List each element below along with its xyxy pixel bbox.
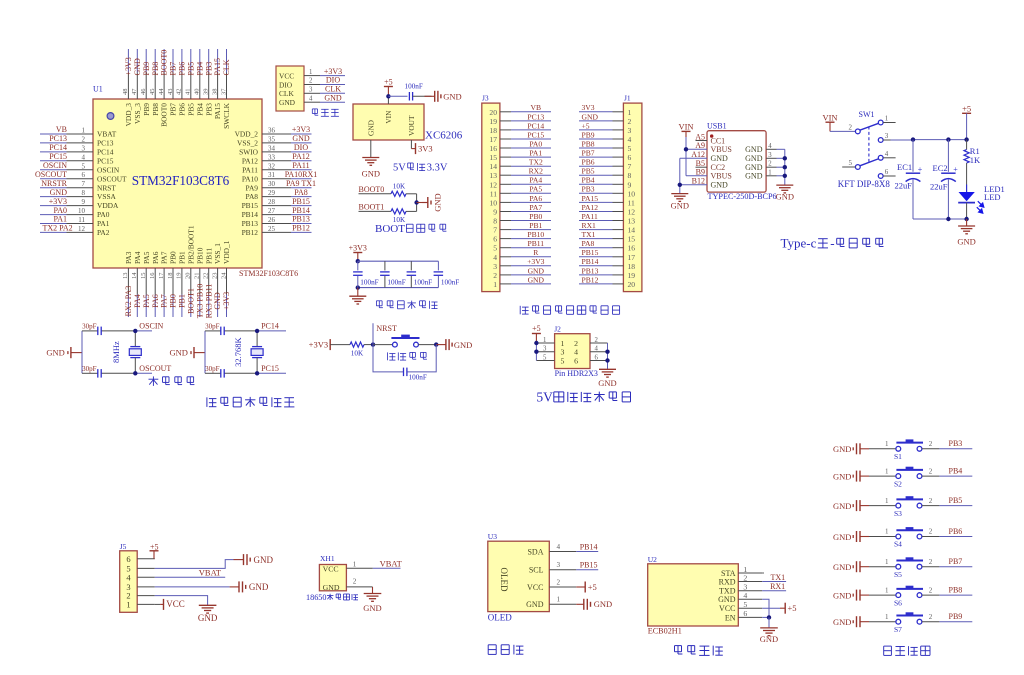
svg-text:SW1: SW1 [859,110,875,119]
svg-text:6: 6 [126,554,130,564]
J5 pin 3 [126,582,154,592]
svg-text:CLK: CLK [279,89,294,98]
net label PB8 [939,586,972,596]
U1 pin 24 VDD_1 net +3V3 [220,240,231,317]
net label PB14 at U3 SDA [576,542,598,551]
svg-text:VDDA: VDDA [97,201,119,210]
svg-text:GND: GND [760,634,778,644]
svg-text:4: 4 [557,543,561,551]
svg-text:4: 4 [309,95,313,102]
U1 pin 32 PA11 net PA11 [242,161,311,174]
svg-text:+5: +5 [788,603,797,613]
svg-text:20: 20 [489,108,497,117]
svg-text:OLED: OLED [488,613,512,623]
svg-text:16: 16 [149,272,156,279]
svg-text:2: 2 [929,558,933,566]
svg-text:PA15: PA15 [582,194,599,203]
gnd bar port button S7 [833,616,869,627]
download header pin 4 GND net GND [279,93,345,107]
svg-text:S3: S3 [894,509,902,518]
svg-text:19: 19 [628,271,636,280]
J5 pin 4 [126,572,154,582]
svg-text:10: 10 [489,198,497,207]
J3 pin 15 net PA1 [489,149,551,163]
svg-text:38: 38 [211,89,218,96]
gnd bar port button S4 [833,531,869,542]
svg-text:5: 5 [743,600,747,609]
net label PB9 [939,612,972,622]
svg-text:PA4: PA4 [133,251,142,264]
svg-text:PB6: PB6 [582,158,595,167]
svg-text:2: 2 [82,135,86,143]
svg-text:XH1: XH1 [320,554,335,563]
svg-text:PA3: PA3 [124,251,133,264]
svg-text:19: 19 [176,273,183,280]
svg-text:2: 2 [309,78,313,85]
power port +5 at U3 VCC [576,582,596,593]
svg-text:43: 43 [167,89,174,96]
svg-text:6: 6 [595,354,599,361]
svg-text:PB13: PB13 [292,215,310,224]
svg-text:100nF: 100nF [441,279,459,287]
capacitor 100nF reset loop [373,345,436,382]
wire filter bottom rail [356,285,439,289]
svg-text:BOOT: BOOT [375,223,405,235]
svg-text:3: 3 [561,348,565,357]
J3 pin 13 net RX2 [489,167,551,181]
svg-text:PC15: PC15 [527,130,544,139]
svg-text:+5: +5 [588,582,597,592]
svg-text:PB5: PB5 [186,103,195,116]
svg-text:16: 16 [489,144,497,153]
svg-text:17: 17 [158,272,165,279]
download header pin 3 CLK net CLK [279,85,345,99]
ground earth U2 [760,628,778,644]
U1 pin 4 PC15 net PC15 [40,152,114,165]
svg-text:PA1: PA1 [54,215,68,224]
svg-text:BOOT0: BOOT0 [359,185,385,194]
svg-text:25: 25 [268,225,276,233]
svg-text:GND: GND [46,348,64,358]
svg-text:CLK: CLK [325,85,341,94]
svg-text:EN: EN [725,613,736,622]
U1 pin 5 OSCIN net OSCIN [40,161,120,174]
svg-text:PB8: PB8 [151,62,160,76]
svg-text:PA7: PA7 [160,251,169,264]
U2 pin 1 STA [721,565,762,578]
J3 pin 17 net PC15 [489,130,551,144]
svg-text:17: 17 [628,253,636,262]
gnd bar port at U3 GND [576,599,612,610]
U3 comment OLED [488,613,512,623]
svg-text:PA4: PA4 [529,176,542,185]
svg-text:GND: GND [711,154,729,163]
svg-text:13: 13 [628,217,636,226]
svg-text:31: 31 [268,171,276,179]
svg-text:PA1: PA1 [97,219,110,228]
svg-text:PB6: PB6 [949,527,963,536]
svg-text:PA12: PA12 [292,152,310,161]
svg-text:GND: GND [833,472,851,482]
power port VIN at SW1 [822,112,837,131]
svg-text:GND: GND [528,275,545,284]
J1 pin 1 net 3V3 [579,103,632,117]
svg-text:A12: A12 [691,150,705,159]
wire U2 GND and EN to earth [762,599,771,627]
power port +5 at U2 VCC [762,603,796,614]
wire top power rail [911,137,969,141]
net label PC14 [261,322,279,331]
svg-text:42: 42 [176,89,183,96]
svg-text:Pin HDR2X3: Pin HDR2X3 [555,369,598,378]
svg-text:VOUT: VOUT [407,115,416,136]
gnd bar port button S5 [833,561,869,572]
J1 pin 3 net +5 [579,121,632,135]
U1 pin 12 PA2 net TX2 PA2 [40,224,110,237]
svg-text:5: 5 [82,162,86,170]
svg-text:PA7: PA7 [160,294,169,308]
svg-text:RX2 PA3: RX2 PA3 [124,286,133,317]
svg-text:100nF: 100nF [387,279,405,287]
svg-text:PA5: PA5 [142,251,151,264]
U2 comment ECB02H1 [648,626,682,635]
U3 pin 2 VCC [527,578,576,592]
svg-text:J5: J5 [120,542,127,551]
svg-text:47: 47 [131,88,138,95]
J1 pin 10 net PB3 [579,185,635,199]
svg-text:RX1: RX1 [582,221,597,230]
net label PB4 [939,467,972,477]
svg-text:GND: GND [745,154,763,163]
net label PB3 [939,439,972,449]
svg-text:TYPEC-250D-BCP6: TYPEC-250D-BCP6 [708,192,777,201]
caption independent buttons [884,646,930,655]
node reset junction left [371,342,375,346]
svg-text:B12: B12 [692,177,705,186]
capacitor 100nF filter 4 [434,261,460,287]
svg-text:+5: +5 [582,121,590,130]
U1 pin 1 VBAT net VB [40,125,117,138]
gnd bar port reset [436,339,472,350]
svg-text:STM32F103C8T6: STM32F103C8T6 [132,173,230,188]
button S6 [869,586,939,608]
svg-text:PB13: PB13 [242,219,259,228]
U1 pin 20 PB2/BOOT1 net BOOT1 [185,225,196,317]
svg-text:VSS_1: VSS_1 [213,243,222,264]
svg-text:GND: GND [528,266,545,275]
svg-text:OSCOUT: OSCOUT [97,174,127,183]
svg-text:100nF: 100nF [414,279,432,287]
crystal 8MHz [111,329,141,376]
U1 pin 43 PB7 net PB7 [167,49,178,116]
svg-text:PB9: PB9 [582,130,595,139]
svg-text:GND: GND [833,532,851,542]
svg-text:PA11: PA11 [582,212,599,221]
U1 pin 25 PB12 net PB12 [242,224,312,237]
svg-text:OSCIN: OSCIN [43,161,67,170]
svg-text:GND: GND [594,599,612,609]
svg-text:30pF: 30pF [82,365,97,373]
svg-text:S4: S4 [894,540,902,549]
U1 pin 19 PB1 net PB1 [176,251,187,317]
svg-text:NRST: NRST [97,183,116,192]
svg-text:GND: GND [443,92,461,102]
wire crystal loop 32.768K [205,331,286,373]
svg-text:18: 18 [167,273,174,280]
svg-text:PB6: PB6 [178,103,187,116]
svg-text:30pF: 30pF [205,365,220,373]
svg-text:27: 27 [268,207,276,215]
svg-text:EC2: EC2 [933,163,948,173]
push button reset [373,335,436,347]
svg-text:PB1: PB1 [178,294,187,308]
svg-text:PB8: PB8 [582,139,595,148]
USB1 pin 4 GND right [745,143,785,154]
svg-text:PA10: PA10 [242,174,258,183]
svg-text:SWCLK: SWCLK [222,102,231,129]
svg-text:B9: B9 [696,168,705,177]
U1 pin 41 PB5 net PB5 [185,49,196,116]
display U3 body OLED [488,532,550,611]
gnd bar port crystal 8MHz [46,347,82,358]
svg-text:PC13: PC13 [527,112,544,121]
svg-text:EC1: EC1 [897,162,912,172]
capacitor 30pF bottom 8MHz [82,365,101,378]
svg-text:24: 24 [220,272,227,279]
svg-text:PB1: PB1 [529,221,542,230]
svg-text:PB9: PB9 [142,62,151,76]
svg-text:RX3 PB11: RX3 PB11 [204,284,213,319]
svg-text:15: 15 [140,273,147,280]
power port +3V3 filter [349,244,367,264]
svg-text:3: 3 [309,87,313,94]
svg-text:BOOT1: BOOT1 [186,288,195,314]
J3 pin 3 net +3V3 [493,257,551,271]
svg-text:8MHz: 8MHz [111,341,121,363]
svg-text:PC15: PC15 [261,364,279,373]
svg-text:GND: GND [598,378,616,388]
crystal 32.768K [233,329,263,376]
XH1 pin 1 net VBAT [346,559,402,569]
svg-text:4: 4 [628,135,632,144]
svg-text:PB5: PB5 [186,62,195,76]
J5 pin 6 [126,554,154,564]
svg-text:PB8: PB8 [949,586,963,595]
svg-text:VDD_2: VDD_2 [235,130,259,139]
svg-text:PA10RX1: PA10RX1 [285,170,318,179]
svg-text:32.768K: 32.768K [233,336,243,366]
svg-text:PB4: PB4 [195,62,204,76]
svg-text:3: 3 [768,152,772,159]
svg-text:6: 6 [82,171,86,179]
switch SW1 KFT DIP-8X8 [830,110,896,178]
J2 pin 2 [574,337,607,348]
J1 pin 12 net PA12 [579,203,635,217]
gnd bar port boot rotated [417,193,443,211]
svg-text:1K: 1K [970,155,981,165]
svg-text:3.3V: 3.3V [427,163,448,174]
svg-text:VBAT: VBAT [199,568,222,578]
U1 pin 33 PA12 net PA12 [242,152,312,165]
svg-text:OSCIN: OSCIN [97,165,120,174]
svg-text:PB15: PB15 [292,197,310,206]
gnd bar port right of cap [425,91,462,102]
bluetooth module U2 body [648,555,739,626]
svg-text:3V3: 3V3 [418,144,433,154]
resistor 10K lower [391,209,406,224]
ground earth USB1 left [671,194,689,211]
svg-text:TX1: TX1 [582,230,596,239]
svg-text:GND: GND [292,134,310,143]
wire crystal loop 8MHz [82,331,152,373]
gnd bar port button S2 [833,471,869,482]
svg-text:VIN: VIN [384,110,393,124]
svg-text:2: 2 [743,573,747,582]
svg-text:VIN: VIN [678,121,693,131]
net label PB6 [939,527,972,537]
svg-text:2: 2 [557,578,561,586]
svg-text:2: 2 [353,578,357,586]
net label PB5 [939,496,972,506]
svg-text:VBAT: VBAT [380,559,403,569]
U1 comment text STM32F103C8T6 [239,269,298,278]
wire bottom power rail [913,217,969,221]
svg-text:+5: +5 [384,78,393,87]
wire SW1 pin3 to power rail [883,139,913,141]
svg-text:PA15: PA15 [213,103,222,119]
wire USB1 gnd pins to earth [678,158,707,193]
svg-text:2: 2 [493,271,497,280]
U2 pin 6 EN [725,609,762,622]
USB1 pin B12 GND [692,177,728,190]
J1 pin 4 net PB9 [579,130,632,144]
USB1 pin A12 GND [691,150,728,163]
U1 pin 29 PA8 net PA8 [246,188,312,201]
svg-text:VSS_2: VSS_2 [237,139,258,148]
U1 pin 16 PA6 net PA6 [149,251,160,317]
svg-text:PA12: PA12 [582,203,599,212]
J3 pin 4 net R [493,248,551,262]
USB1 pin 3 GND right [745,152,785,163]
svg-text:GND: GND [833,591,851,601]
svg-text:A9: A9 [695,141,705,150]
svg-text:VCC: VCC [527,583,543,592]
XC6206 VOUT to 3V3 port [411,140,432,154]
svg-text:GND: GND [745,145,763,154]
caption MCU minimum system [207,397,295,407]
svg-text:4: 4 [82,153,86,161]
svg-text:PB2/BOOT1: PB2/BOOT1 [186,225,195,264]
U1 pin 46 PB9 net PB9 [140,49,151,116]
svg-text:RX1: RX1 [770,582,785,591]
svg-text:35: 35 [268,135,276,143]
svg-text:PB3: PB3 [204,103,213,116]
svg-text:PA5: PA5 [529,185,542,194]
J2 pin 6 [574,354,607,365]
svg-text:6: 6 [493,235,497,244]
svg-text:-: - [830,236,834,251]
svg-text:STM32F103C8T6: STM32F103C8T6 [239,269,298,278]
svg-text:1: 1 [561,339,565,348]
button S2 [869,467,939,489]
led LED1 [958,184,1005,219]
svg-text:32: 32 [268,162,276,170]
net label VBAT at J5 pin4 [155,568,225,578]
button S5 [869,557,939,579]
U1 pin 28 PB15 net PB15 [242,197,312,210]
svg-text:9: 9 [82,198,86,206]
svg-text:2: 2 [574,339,578,348]
svg-text:USB1: USB1 [707,122,727,131]
svg-text:8: 8 [628,171,632,180]
net label TX1 at U2 RXD [762,573,786,582]
wire U2 STA stub [762,572,764,574]
net label BOOT1 [359,203,392,212]
net label RX1 at U2 TXD [762,582,786,591]
svg-text:PB4: PB4 [195,103,204,116]
U1 pin 3 PC14 net PC14 [40,143,114,156]
svg-text:3: 3 [628,126,632,135]
svg-text:26: 26 [268,216,276,224]
svg-text:PA11: PA11 [292,161,309,170]
svg-text:DIO: DIO [294,143,308,152]
J3 pin 19 net PC13 [489,112,551,126]
svg-text:2: 2 [628,117,632,126]
J3 pin 7 net PB1 [493,221,551,235]
net label NRST with wire [373,323,397,344]
svg-text:GND: GND [454,340,472,350]
svg-text:+: + [918,165,923,174]
J5 pin 1 [126,600,154,610]
gnd bar port button S3 [833,500,869,511]
J1 pin 20 net PB12 [579,275,635,289]
svg-text:GND: GND [170,348,188,358]
svg-text:20: 20 [185,273,192,280]
svg-text:TX1: TX1 [771,573,786,582]
J2 comment Pin HDR2X3 [555,369,598,378]
J2 pin 5 [536,354,564,365]
svg-text:8: 8 [82,189,86,197]
svg-text:VSS_3: VSS_3 [133,103,142,124]
U1 pin 42 PB6 net PB6 [176,49,187,116]
svg-text:GND: GND [133,58,142,76]
J2 pin 1 [536,337,564,348]
U1 pin 36 VDD_2 net +3V3 [235,125,312,138]
svg-text:PC15: PC15 [49,152,67,161]
svg-text:PB11: PB11 [527,239,544,248]
svg-text:6: 6 [885,168,889,176]
svg-text:1: 1 [885,586,889,594]
capacitor 30pF bottom 32.768K [205,365,224,378]
svg-text:100nF: 100nF [360,279,378,287]
svg-text:2: 2 [849,123,853,131]
svg-text:2: 2 [929,613,933,621]
svg-text:PA9 TX1: PA9 TX1 [286,179,316,188]
capacitor EC2 22uF [930,140,958,219]
svg-text:PA6: PA6 [529,194,542,203]
svg-text:5: 5 [628,144,632,153]
svg-text:14: 14 [628,226,636,235]
svg-text:PA0: PA0 [529,139,542,148]
svg-text:30pF: 30pF [82,322,97,330]
svg-text:U1: U1 [93,85,103,94]
svg-text:PA15: PA15 [213,58,222,76]
USB1 pin B9 VBUS [696,168,732,181]
svg-text:29: 29 [268,189,276,197]
svg-text:PB12: PB12 [292,224,310,233]
svg-text:BOOT0: BOOT0 [160,103,169,127]
svg-text:1: 1 [885,467,889,475]
